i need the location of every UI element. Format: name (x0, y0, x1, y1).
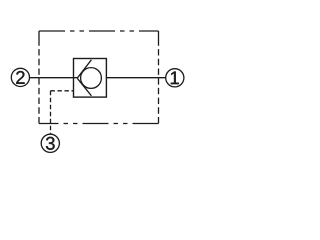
envelope top edge (phantom dashed) (39, 30, 159, 32)
envelope left edge (dashed) (38, 31, 40, 124)
port 2 label (16, 71, 24, 84)
check ball (81, 68, 102, 89)
seat upper line (77, 60, 91, 78)
pilot wire horizontal (dashed) (51, 90, 74, 92)
port 3 label (46, 137, 55, 150)
wire valve to port 1 (106, 77, 165, 79)
wire port 2 to seat (29, 77, 77, 79)
pilot wire vertical to port 3 (dashed) (50, 91, 52, 135)
port 2 circle (11, 68, 29, 86)
port 1 circle (166, 69, 184, 87)
valve body square (74, 59, 107, 98)
seat lower line (77, 78, 91, 96)
port 3 circle (41, 134, 59, 152)
envelope right edge (dashed) (158, 31, 160, 124)
port 1 label (171, 72, 179, 85)
envelope bottom edge (phantom dashed) (39, 123, 159, 125)
